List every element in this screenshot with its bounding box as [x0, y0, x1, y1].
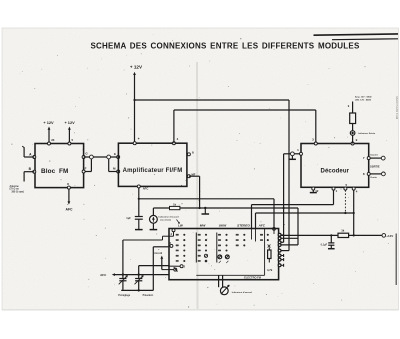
trimmer capacitor 2	[138, 266, 140, 279]
node F of Bloc FM	[82, 170, 85, 173]
LED stereo indicator	[350, 131, 355, 136]
svg-text:Indicateur d'accord: Indicateur d'accord	[232, 291, 253, 294]
svg-text:23: 23	[51, 138, 55, 142]
svg-text:+ 12V: + 12V	[130, 65, 143, 70]
pin 1(11) bottom of decoder	[332, 187, 335, 190]
electrolytic capacitor 1uF	[135, 216, 143, 218]
keyboard module ELECTRO FM	[169, 229, 279, 280]
svg-text:FM: FM	[59, 168, 68, 175]
AFC resistor 4,7k	[268, 250, 271, 259]
+12V rail to keyboard	[135, 99, 290, 101]
pin 4 bottom of decoder	[352, 187, 355, 190]
trimmer capacitor 1 (preregale)	[122, 240, 124, 278]
svg-text:AFC: AFC	[100, 273, 107, 277]
wire F to connector	[90, 159, 92, 172]
svg-text:+ 12V: + 12V	[43, 120, 54, 125]
pin 3 left of keyboard	[170, 244, 173, 247]
ground at decoder pin 1	[291, 156, 293, 160]
svg-text:LED. 12V : 820Ω: LED. 12V : 820Ω	[355, 99, 371, 101]
inner partition	[264, 229, 266, 276]
shield box around trimmers	[153, 246, 168, 248]
module Bloc FM	[35, 144, 84, 188]
supply pin 4 of ampli to decoder pin 3	[172, 142, 175, 145]
svg-text:1μF: 1μF	[126, 216, 131, 220]
ground bus H3	[153, 207, 298, 209]
antenna input A	[33, 156, 36, 159]
svg-text:300 Ω sym): 300 Ω sym)	[12, 191, 25, 193]
capacitor 0,1uF	[330, 235, 332, 242]
top right rules	[314, 34, 399, 35]
module Decodeur	[301, 144, 369, 188]
tuning indicator meter	[218, 275, 220, 287]
stereo line H2	[252, 204, 334, 206]
svg-text:4,7k: 4,7k	[267, 268, 273, 272]
svg-text:Antenne: Antenne	[10, 185, 20, 188]
AFC pin of ampli	[137, 185, 140, 188]
svg-text:1k: 1k	[341, 229, 345, 233]
MW column contacts	[198, 234, 201, 236]
MW column rail	[195, 233, 197, 263]
svg-text:AFC: AFC	[66, 208, 74, 212]
resistor 1k in meter line	[170, 206, 180, 209]
node M input of Ampli	[117, 170, 120, 173]
resistor 1k	[338, 233, 349, 237]
line H4	[256, 212, 354, 214]
svg-text:E: E	[114, 152, 116, 156]
svg-text:Accord: Accord	[154, 252, 163, 255]
tuning meter (au choix)	[150, 215, 158, 223]
pin 7 sortie gauche	[367, 157, 370, 160]
svg-text:AFC: AFC	[258, 223, 266, 227]
AFC contacts	[260, 234, 263, 236]
svg-text:Amp. 12V : 180Ω: Amp. 12V : 180Ω	[355, 96, 372, 99]
pin 5 bottom of decoder dashed	[344, 187, 347, 190]
svg-text:0,1μF: 0,1μF	[321, 244, 328, 247]
svg-text:STEREO: STEREO	[237, 223, 250, 227]
page bottom edge line	[2, 309, 398, 311]
output pin MF of ampli	[187, 175, 190, 178]
AFC line H1 to keyboard	[139, 198, 274, 200]
STEREO contacts	[236, 234, 239, 236]
svg-text:Droite: Droite	[371, 176, 378, 179]
AFC output pin 8 of Bloc FM	[67, 186, 70, 189]
svg-text:Présélect.: Présélect.	[143, 294, 154, 297]
trimmer common return	[121, 289, 153, 291]
UKW column rail	[216, 233, 218, 263]
svg-text:Gauche: Gauche	[370, 155, 379, 157]
scan specks	[181, 185, 182, 186]
pin 9 top of decoder with lamp chain	[351, 142, 354, 145]
pin 12 bottom of decoder with ground	[312, 187, 315, 190]
antenna input B	[33, 170, 36, 173]
UKW switch big contacts	[218, 255, 222, 259]
pin 8 sortie droite	[367, 172, 370, 175]
AFC column cross contact	[268, 245, 271, 248]
right edge pins of keyboard	[278, 233, 281, 236]
arrow annotation to switch	[162, 269, 174, 271]
svg-text:(au choix): (au choix)	[161, 219, 172, 221]
node E input of Ampli	[117, 156, 120, 159]
riser stubs into stereo column	[251, 229, 253, 240]
right margin mark	[395, 234, 397, 286]
module Amplificateur FI/FM	[118, 143, 186, 186]
pin 4 top left of keyboard	[172, 229, 175, 232]
pin 3 top of decoder	[314, 142, 317, 145]
AFC varicap line	[112, 273, 115, 276]
bus drop to keyboard pins	[297, 208, 299, 245]
svg-text:Amplificateur FI/FM: Amplificateur FI/FM	[123, 168, 183, 174]
LW column contacts	[176, 234, 179, 236]
pin wires right side	[281, 234, 284, 236]
scan crease	[196, 62, 199, 309]
svg-text:AFC: AFC	[143, 187, 149, 191]
svg-text:+14V: +14V	[386, 234, 393, 238]
svg-text:ELECTRO FM: ELECTRO FM	[244, 275, 261, 279]
svg-text:+: +	[138, 137, 140, 141]
resistor stereo lamp	[350, 113, 356, 124]
pin 1 left of decoder	[300, 152, 303, 155]
svg-text:Décodeur: Décodeur	[321, 169, 350, 175]
svg-text:UKW: UKW	[219, 223, 227, 227]
UKW column contacts	[218, 234, 221, 236]
chassis ground on bus	[204, 207, 206, 209]
output pin 8 of ampli	[187, 153, 190, 156]
svg-text:SCHEMA DES CONNEXIONS ENTRE LE: SCHEMA DES CONNEXIONS ENTRE LES DIFFEREN…	[90, 42, 359, 51]
svg-text:Bloc: Bloc	[41, 168, 56, 175]
svg-text:Préréglage: Préréglage	[118, 295, 131, 297]
switch C and 2 bottom left	[174, 268, 177, 271]
svg-text:(75 Ω ou: (75 Ω ou	[10, 189, 20, 191]
node G output of Bloc FM	[82, 156, 85, 159]
svg-text:Indicateur d'accord: Indicateur d'accord	[159, 216, 180, 219]
svg-text:+ 12V: + 12V	[64, 120, 75, 125]
+14V line from keyboard	[281, 234, 338, 236]
svg-text:Indicateur Stéréo: Indicateur Stéréo	[358, 132, 376, 135]
wire G to E with connectors	[84, 156, 118, 158]
svg-text:SORTIE: SORTIE	[370, 164, 380, 168]
wire M to connector	[108, 159, 110, 172]
svg-text:RADIO PLANS N 316: RADIO PLANS N 316	[395, 96, 398, 120]
svg-text:F: F	[85, 166, 87, 170]
branch to keyboard pin 2	[139, 265, 169, 267]
+14V terminal	[382, 234, 386, 238]
